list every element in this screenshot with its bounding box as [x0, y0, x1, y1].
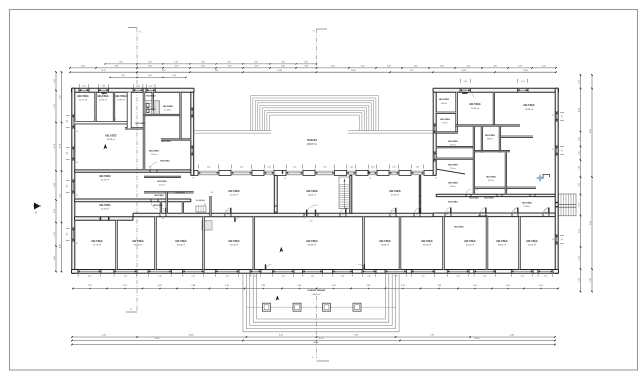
svg-text:HELYISÉG: HELYISÉG: [522, 202, 532, 205]
svg-text:7,15: 7,15: [410, 70, 414, 72]
svg-text:23,04 m²: 23,04 m²: [528, 244, 536, 247]
svg-text:1,75: 1,75: [578, 183, 580, 187]
svg-text:HELYISÉG: HELYISÉG: [526, 240, 538, 243]
svg-text:HELYISÉG: HELYISÉG: [469, 103, 481, 106]
svg-text:7,80: 7,80: [354, 335, 358, 337]
svg-text:80: 80: [211, 192, 213, 194]
right dimension chain line 2: [591, 75, 593, 292]
door leaves at mid wall openings: [165, 208, 166, 214]
door leaf below wall at room divider 234: [234, 217, 235, 222]
right wing center room west wall: [481, 126, 482, 152]
left dimension chain line 2: [61, 72, 63, 272]
svg-text:5,10: 5,10: [59, 194, 61, 198]
apartment partition wall: [210, 196, 211, 216]
right wing partition x474: [473, 126, 474, 194]
svg-text:2,10: 2,10: [124, 275, 127, 277]
svg-text:21,30 m²: 21,30 m²: [523, 205, 530, 208]
right wall window dimension ticks: [560, 111, 564, 113]
right wing partition x506: [505, 153, 506, 195]
hall porch door leaves: [265, 264, 266, 269]
svg-text:3,16 m²: 3,16 m²: [450, 167, 456, 170]
svg-text:36,34 m²: 36,34 m²: [177, 244, 185, 247]
svg-text:1,50: 1,50: [102, 86, 105, 88]
svg-text:1,50: 1,50: [371, 167, 374, 169]
svg-text:70: 70: [506, 190, 508, 192]
central wall above bottom rooms: [133, 213, 433, 217]
svg-text:2,62: 2,62: [148, 75, 151, 77]
axis 1 top mark: [128, 27, 137, 29]
left wing top row partition b: [113, 92, 114, 121]
far bottom dimension chain line 3: [72, 344, 555, 346]
svg-text:2,50: 2,50: [54, 256, 56, 260]
svg-text:1,50: 1,50: [350, 167, 353, 169]
left wing block h-wall 2: [161, 139, 191, 140]
section arrow A at left: [34, 203, 41, 210]
svg-text:2,10: 2,10: [521, 275, 524, 277]
svg-text:3,05: 3,05: [158, 285, 162, 287]
svg-text:4,35: 4,35: [387, 66, 391, 68]
svg-text:1,50: 1,50: [293, 167, 296, 169]
svg-text:3,20: 3,20: [119, 62, 122, 64]
section axis line 2 (center vertical dash at x=316.5, top): [316, 29, 318, 66]
svg-text:HELYISÉG: HELYISÉG: [163, 105, 174, 108]
apartment entry stair hatch: [202, 221, 212, 230]
svg-text:2,10: 2,10: [367, 275, 370, 277]
door swing arcs: [150, 163, 157, 170]
svg-text:90: 90: [284, 178, 286, 180]
svg-text:22,20 m²: 22,20 m²: [101, 208, 109, 211]
door leaf marks (dark): [102, 92, 107, 93]
svg-text:3,30: 3,30: [297, 285, 301, 287]
right wing east outer wall: [555, 88, 558, 273]
svg-text:9,20: 9,20: [590, 221, 592, 225]
central partition x419: [419, 175, 420, 213]
svg-text:1,82: 1,82: [54, 79, 56, 83]
top dimension chain line C: [70, 71, 556, 73]
porch column axis line: [246, 306, 395, 308]
svg-text:HELYISÉG: HELYISÉG: [153, 204, 163, 207]
svg-text:2,70: 2,70: [281, 62, 284, 64]
porch column 1: [263, 303, 271, 311]
left wing wall above bottom rooms: [75, 217, 134, 220]
svg-text:HELYISÉG: HELYISÉG: [469, 197, 479, 200]
svg-text:3,15: 3,15: [578, 229, 580, 233]
svg-text:HELYISÉG: HELYISÉG: [77, 95, 89, 98]
right wing west wall (facing terrace): [433, 92, 436, 175]
bottom row partition b x154.5: [155, 217, 157, 270]
svg-text:2,20: 2,20: [578, 256, 580, 260]
left wing big room east wall: [180, 92, 181, 139]
svg-text:HELYISÉG: HELYISÉG: [478, 215, 488, 218]
svg-text:HELYISÉG: HELYISÉG: [97, 95, 109, 98]
svg-text:45: 45: [76, 162, 78, 164]
central hall east wall: [350, 175, 352, 213]
top dimension chain line D (partial left): [110, 76, 186, 78]
svg-text:90: 90: [416, 214, 418, 216]
svg-text:7,45 m²: 7,45 m²: [151, 153, 158, 156]
svg-text:HELYISÉG: HELYISÉG: [421, 240, 433, 243]
svg-text:90: 90: [514, 212, 516, 214]
far bottom dimension chain line 1: [72, 336, 555, 338]
corridor pier door leaves: [282, 171, 283, 174]
right wing corridor wall y187: [475, 187, 536, 188]
svg-text:HELYISÉG: HELYISÉG: [448, 164, 458, 167]
svg-text:45: 45: [552, 149, 554, 151]
svg-text:4,50: 4,50: [467, 66, 471, 68]
svg-text:2,10: 2,10: [311, 275, 314, 277]
svg-text:HELYISÉG: HELYISÉG: [115, 95, 127, 98]
central hall west wall: [274, 175, 277, 213]
svg-text:41,04 m²: 41,04 m²: [230, 244, 238, 247]
svg-text:48,30: 48,30: [314, 342, 319, 344]
svg-text:HELYISÉG: HELYISÉG: [154, 194, 164, 197]
central staircase: [339, 177, 350, 209]
svg-text:4,05: 4,05: [542, 66, 546, 68]
window head tick marks above top walls: [78, 84, 80, 88]
svg-text:46,36 m²: 46,36 m²: [308, 244, 316, 247]
right wing diagonal wall: [437, 169, 465, 174]
svg-text:4,87 m²: 4,87 m²: [488, 179, 494, 182]
svg-text:HELYISÉG: HELYISÉG: [485, 134, 496, 137]
right wing h-wall y112: [436, 112, 456, 113]
svg-text:1,50: 1,50: [149, 86, 152, 88]
svg-text:90: 90: [562, 239, 564, 241]
right wing h-wall y125: [455, 125, 520, 126]
svg-text:2,32: 2,32: [54, 232, 56, 236]
svg-text:7,35: 7,35: [430, 335, 434, 337]
svg-text:3,12: 3,12: [401, 285, 405, 287]
svg-text:1,50: 1,50: [67, 185, 69, 188]
svg-text:HELYISÉG: HELYISÉG: [149, 150, 160, 153]
svg-text:1,70: 1,70: [578, 166, 580, 170]
svg-text:3,00: 3,00: [539, 285, 543, 287]
svg-text:HELYISÉG: HELYISÉG: [306, 190, 318, 193]
svg-text:90: 90: [227, 214, 229, 216]
svg-text:HELYISÉG: HELYISÉG: [439, 98, 450, 101]
svg-text:HELYISÉG: HELYISÉG: [146, 94, 156, 97]
bottom row partition h x486: [486, 217, 488, 270]
svg-text:8,85: 8,85: [215, 70, 219, 72]
svg-text:1,50: 1,50: [267, 167, 270, 169]
top dimension chain line B: [70, 67, 556, 69]
svg-text:HELYISÉG: HELYISÉG: [448, 201, 458, 204]
svg-text:2,62: 2,62: [148, 62, 151, 64]
stair door jambs at right wall: [555, 202, 558, 203]
svg-text:HELYISÉG: HELYISÉG: [175, 240, 187, 243]
svg-text:2,10: 2,10: [421, 275, 424, 277]
svg-text:2,20: 2,20: [54, 209, 56, 213]
svg-text:HELYISÉG: HELYISÉG: [496, 240, 508, 243]
left wing west outer wall: [72, 88, 75, 273]
svg-text:90: 90: [149, 167, 151, 169]
svg-text:90: 90: [562, 116, 564, 118]
svg-text:2,10: 2,10: [226, 275, 229, 277]
svg-text:90: 90: [392, 214, 394, 216]
terrace north edge lines (left): [194, 130, 271, 132]
svg-text:A LAKÁS: A LAKÁS: [196, 199, 206, 202]
svg-text:HELYISÉG: HELYISÉG: [484, 197, 494, 200]
svg-text:1,50: 1,50: [137, 86, 140, 88]
svg-text:3,40: 3,40: [281, 66, 285, 68]
svg-text:HELYISÉG: HELYISÉG: [132, 240, 144, 243]
svg-text:HELYISÉG: HELYISÉG: [440, 118, 450, 121]
svg-text:90: 90: [114, 119, 116, 121]
svg-text:HELYISÉG: HELYISÉG: [454, 226, 464, 229]
svg-text:43,35 m²: 43,35 m²: [134, 244, 142, 247]
svg-text:1,50: 1,50: [392, 167, 395, 169]
svg-text:HELYISÉG: HELYISÉG: [99, 175, 111, 178]
svg-text:HELYISÉG: HELYISÉG: [91, 240, 103, 243]
svg-text:90: 90: [95, 119, 97, 121]
svg-text:1,50: 1,50: [207, 167, 210, 169]
svg-text:1,50: 1,50: [521, 81, 524, 83]
svg-text:1,35: 1,35: [578, 151, 580, 155]
left wing top row partition a: [95, 92, 96, 121]
svg-text:10,35: 10,35: [462, 70, 467, 72]
corridor wall facing terrace with window piers: [194, 171, 198, 176]
right dimension chain line 1: [580, 75, 582, 292]
svg-text:186,87 m²: 186,87 m²: [307, 143, 317, 146]
right wing partition x494: [493, 92, 494, 125]
sanitary fixtures: [146, 103, 149, 107]
axis 2 bottom mark: [317, 360, 330, 362]
porch column 4: [353, 303, 361, 311]
svg-text:1,50: 1,50: [67, 152, 69, 155]
svg-text:2,62: 2,62: [254, 62, 257, 64]
svg-text:HELYISÉG: HELYISÉG: [379, 240, 391, 243]
svg-text:90: 90: [545, 212, 547, 214]
svg-text:90: 90: [369, 178, 371, 180]
svg-text:3,00: 3,00: [473, 285, 477, 287]
left wing east wall (facing terrace): [191, 92, 194, 175]
svg-text:90: 90: [482, 212, 484, 214]
svg-text:2,10: 2,10: [578, 203, 580, 207]
bottom row partition a x115.5: [116, 220, 118, 269]
bottom row partition i x518.5: [519, 217, 521, 270]
right wing external stair: [559, 194, 577, 216]
bottom row partition e x362.5: [363, 217, 365, 270]
left wing SE block h-wall y191: [144, 192, 194, 193]
svg-text:1,50: 1,50: [464, 81, 467, 83]
svg-text:1,00: 1,00: [341, 214, 344, 216]
svg-text:1,40: 1,40: [309, 221, 312, 223]
right wing partition x456: [456, 92, 458, 132]
svg-text:45: 45: [552, 115, 554, 117]
svg-text:4,50: 4,50: [414, 66, 418, 68]
svg-text:19,04 m²: 19,04 m²: [498, 244, 506, 247]
svg-text:4,35: 4,35: [148, 66, 152, 68]
right wing corridor wall y136: [501, 136, 533, 137]
svg-text:15,50: 15,50: [475, 338, 480, 340]
bottom row partition f x399: [399, 217, 401, 270]
left dimension chain line 1: [55, 72, 57, 272]
svg-text:2,88: 2,88: [54, 183, 56, 187]
svg-text:2,28: 2,28: [172, 75, 175, 77]
right wing corridor wall y194: [436, 194, 555, 196]
svg-text:2,62: 2,62: [121, 75, 124, 77]
svg-text:HELYISÉG: HELYISÉG: [135, 122, 145, 125]
bottom row partition d x252.8: [253, 217, 255, 270]
svg-text:95,85 m²: 95,85 m²: [313, 293, 321, 296]
apartment entry hatch: [196, 206, 206, 212]
north arrow in big room: [104, 144, 108, 150]
svg-text:27,12 m²: 27,12 m²: [230, 194, 238, 197]
svg-text:3,30: 3,30: [261, 285, 265, 287]
svg-text:5,86 m²: 5,86 m²: [441, 102, 448, 105]
svg-text:1,50: 1,50: [240, 167, 243, 169]
svg-text:9,89 m²: 9,89 m²: [487, 138, 494, 141]
svg-text:4,35: 4,35: [493, 66, 497, 68]
svg-text:HELYISÉG: HELYISÉG: [448, 140, 458, 143]
window sill tick marks below bottom wall: [77, 274, 79, 276]
svg-text:90: 90: [447, 212, 449, 214]
svg-text:HELYISÉG: HELYISÉG: [448, 182, 458, 185]
svg-text:11,22: 11,22: [101, 70, 105, 72]
right wing h-wall y146: [436, 146, 473, 147]
left wing mid wall 2: [75, 170, 191, 172]
svg-text:2,25: 2,25: [578, 278, 580, 282]
svg-text:2,10: 2,10: [544, 275, 547, 277]
left wing wall below top room row: [75, 122, 132, 124]
svg-text:34,59 m²: 34,59 m²: [423, 244, 431, 247]
svg-text:49,28 m²: 49,28 m²: [107, 138, 115, 141]
svg-text:90: 90: [562, 150, 564, 152]
bottom row partition c x202.5: [203, 217, 205, 270]
porch column 2: [293, 303, 301, 311]
svg-text:PIHENŐ TERASZ: PIHENŐ TERASZ: [308, 289, 326, 292]
svg-text:2,97: 2,97: [88, 285, 92, 287]
svg-text:HELYISÉG: HELYISÉG: [99, 204, 111, 207]
svg-text:22,04 m²: 22,04 m²: [308, 194, 316, 197]
svg-text:7,25 m²: 7,25 m²: [442, 122, 448, 125]
porch column 3: [323, 303, 331, 311]
svg-text:HELYISÉG: HELYISÉG: [105, 135, 117, 138]
svg-text:90: 90: [162, 218, 164, 220]
svg-text:30,82 m²: 30,82 m²: [525, 108, 533, 111]
bottom chain intermediate ticks: [89, 288, 90, 289]
bottom outer wall with windows: [72, 270, 559, 274]
terrace north edge lines (right): [348, 130, 433, 132]
svg-text:HELYISÉG: HELYISÉG: [464, 240, 476, 243]
left wing lower corridor wall: [160, 202, 161, 214]
svg-text:4,50: 4,50: [81, 66, 85, 68]
svg-text:80: 80: [204, 204, 206, 206]
svg-text:HELYISÉG: HELYISÉG: [306, 240, 318, 243]
svg-text:4,28: 4,28: [578, 108, 580, 112]
svg-text:45: 45: [76, 195, 78, 197]
svg-text:4,97 m²: 4,97 m²: [450, 144, 456, 147]
svg-text:HELYISÉG: HELYISÉG: [147, 108, 157, 111]
svg-text:11,56 m²: 11,56 m²: [164, 109, 172, 112]
left wing block h-wall 1: [143, 114, 180, 115]
svg-text:12,77 m²: 12,77 m²: [79, 99, 87, 102]
svg-text:17,97 m²: 17,97 m²: [117, 99, 125, 102]
svg-text:6,42: 6,42: [102, 335, 106, 337]
svg-text:45: 45: [552, 239, 554, 241]
svg-text:3,40: 3,40: [304, 66, 308, 68]
svg-text:17,10: 17,10: [155, 338, 160, 340]
right wing h-wall y131: [436, 132, 458, 133]
svg-text:10,80: 10,80: [189, 335, 194, 337]
svg-text:4,35: 4,35: [255, 66, 259, 68]
left wing SE block v-wall x166: [166, 192, 167, 214]
svg-text:1,50: 1,50: [67, 120, 69, 123]
svg-text:2,10: 2,10: [88, 275, 91, 277]
svg-text:HELYISÉG: HELYISÉG: [523, 104, 535, 107]
left wing block partition: [143, 92, 145, 170]
svg-text:HELYISÉG: HELYISÉG: [228, 240, 240, 243]
svg-text:3,12: 3,12: [123, 285, 127, 287]
svg-text:6,85: 6,85: [115, 66, 119, 68]
svg-text:15,70: 15,70: [319, 338, 324, 340]
svg-text:4,35: 4,35: [201, 66, 205, 68]
svg-text:1,00: 1,00: [102, 93, 105, 95]
left wing small stair cell: [153, 101, 159, 115]
svg-text:A: A: [35, 211, 37, 215]
left wing top outer wall: [72, 88, 195, 92]
svg-text:3,30: 3,30: [437, 285, 441, 287]
svg-text:12,30: 12,30: [278, 70, 283, 72]
svg-text:4,50: 4,50: [361, 66, 365, 68]
right wing wall above bottom rooms: [433, 213, 555, 217]
bottom row partition g x442.5: [443, 217, 445, 270]
svg-text:2,10: 2,10: [457, 275, 460, 277]
svg-text:3,05: 3,05: [332, 285, 336, 287]
svg-text:1,50: 1,50: [323, 167, 326, 169]
svg-text:8,90: 8,90: [162, 70, 166, 72]
svg-text:2,70: 2,70: [174, 62, 177, 64]
svg-text:3,10: 3,10: [225, 285, 229, 287]
svg-text:2,88: 2,88: [191, 285, 195, 287]
svg-text:1,35: 1,35: [578, 80, 580, 84]
svg-text:31,64 m²: 31,64 m²: [466, 244, 474, 247]
north arrow in center hall: [280, 247, 284, 253]
svg-text:12,10 m²: 12,10 m²: [159, 184, 166, 187]
right wing h-wall y158: [436, 158, 473, 159]
svg-text:3,08: 3,08: [366, 285, 370, 287]
svg-text:5,45: 5,45: [331, 66, 335, 68]
right wing h-wall y150: [473, 150, 510, 151]
svg-text:27,37 m²: 27,37 m²: [391, 194, 399, 197]
door hook near blue star: [543, 175, 550, 179]
main entrance door leaves (center hall): [306, 210, 307, 216]
svg-text:32,20 m²: 32,20 m²: [101, 179, 109, 182]
svg-text:HELYISÉG: HELYISÉG: [228, 190, 240, 193]
svg-text:15,04 m²: 15,04 m²: [471, 107, 479, 110]
svg-text:4,78: 4,78: [54, 144, 56, 148]
svg-text:2,10: 2,10: [158, 275, 161, 277]
svg-text:3,95: 3,95: [518, 66, 522, 68]
svg-text:5,80 m²: 5,80 m²: [450, 185, 456, 188]
svg-text:1,50: 1,50: [416, 167, 419, 169]
far bottom dimension chain line 2: [72, 340, 555, 342]
svg-text:4,78: 4,78: [59, 144, 61, 148]
svg-text:8,85: 8,85: [590, 129, 592, 133]
svg-text:8,40: 8,40: [510, 335, 514, 337]
svg-text:12,94 m²: 12,94 m²: [99, 99, 107, 102]
axis 2 top mark: [317, 28, 328, 30]
left wing mid wall door jambs (dark): [100, 216, 101, 220]
top dimension chain line A (partial): [105, 63, 317, 65]
svg-text:12,30: 12,30: [351, 70, 356, 72]
svg-text:HELYISÉG: HELYISÉG: [161, 140, 171, 143]
blue survey star: [536, 174, 545, 183]
svg-text:2,10: 2,10: [192, 275, 195, 277]
svg-text:2,10: 2,10: [341, 275, 344, 277]
svg-text:45: 45: [76, 243, 78, 245]
left wing wall y128 (big room north): [125, 128, 143, 129]
svg-text:2,85: 2,85: [506, 285, 510, 287]
